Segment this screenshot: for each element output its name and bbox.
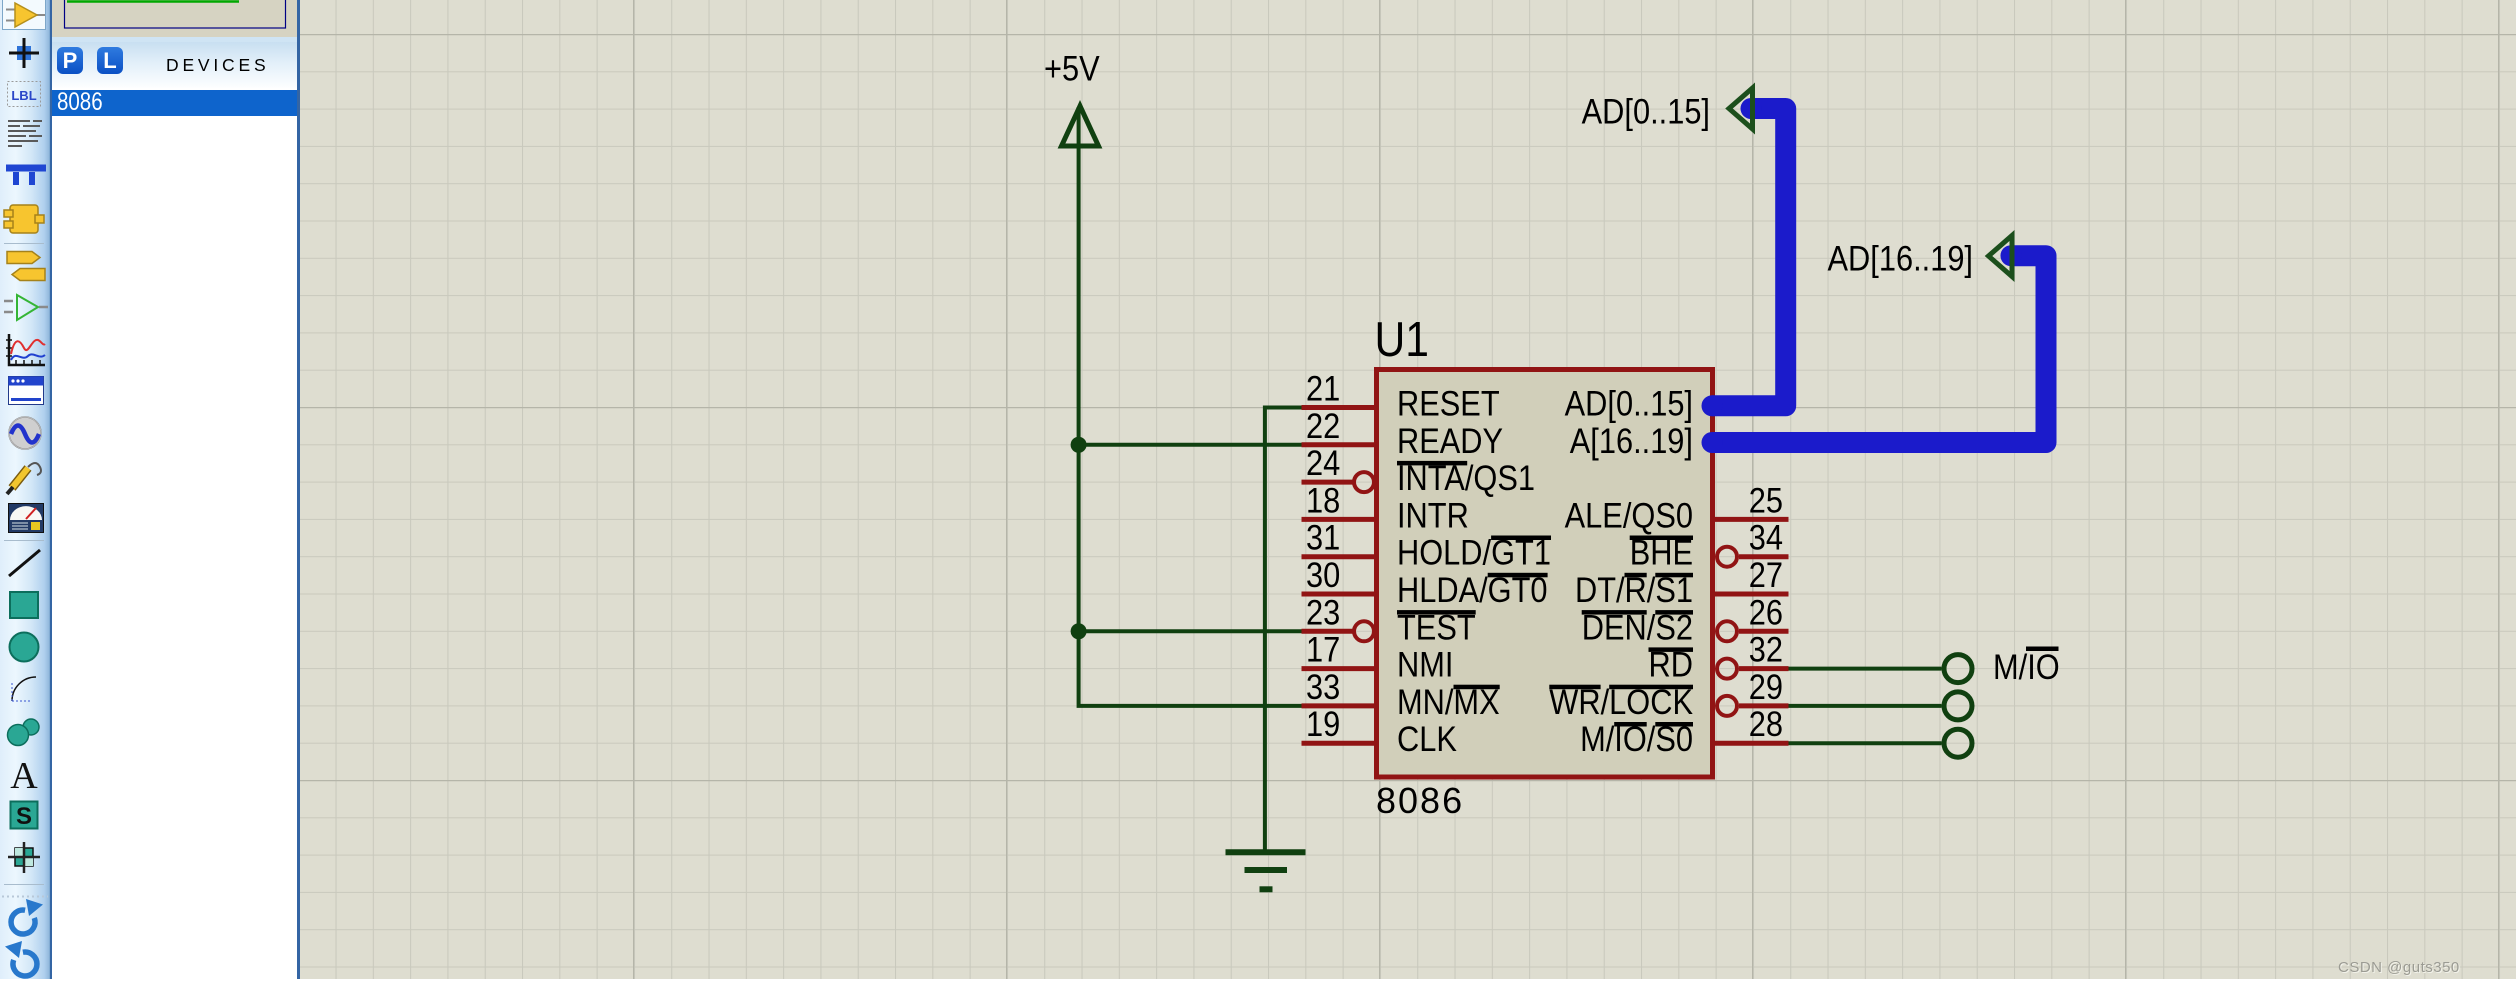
bus AD[16..19]: [1702, 245, 2047, 453]
wire branch to READY: [1079, 443, 1302, 447]
bus terminal arrow AD[16..19]: [1989, 236, 2013, 277]
pin 28 M/IO/S0: [1580, 704, 1788, 758]
wire branch to TEST: [1079, 629, 1302, 633]
svg-text:8086: 8086: [1376, 780, 1464, 821]
svg-text:A[16..19]: A[16..19]: [1570, 421, 1693, 460]
svg-text:LBL: LBL: [11, 88, 36, 103]
pin 25 ALE/QS0: [1565, 481, 1789, 535]
svg-text:19: 19: [1306, 704, 1340, 743]
toolbar right edge: [50, 0, 52, 979]
wire RESET to ground: [1265, 408, 1302, 850]
svg-text:AD[0..15]: AD[0..15]: [1582, 92, 1710, 131]
terminal M/IO: [1944, 647, 2060, 687]
toolbar button: 2D symbol: [11, 802, 38, 831]
pin 30 HLDA/GT0: [1302, 555, 1548, 609]
toolbar button: 2D circle: [10, 633, 39, 662]
svg-text:18: 18: [1306, 481, 1340, 520]
pin 23 TEST (bubble): [1302, 592, 1476, 646]
toolbar button: rotate clockwise: [11, 899, 43, 934]
svg-text:RESET: RESET: [1397, 384, 1500, 423]
toolbar button: component mode (selected): [3, 0, 46, 30]
wire M/IO/S0 to terminal: [1789, 741, 1942, 745]
toolbar button: generator mode: [9, 417, 41, 449]
pin 27 DT/R/S1: [1575, 555, 1789, 609]
pin 21 RESET: [1302, 369, 1500, 423]
svg-text:27: 27: [1749, 555, 1783, 594]
toolbar button: junction dot mode: [9, 38, 39, 68]
toolbar button: graph mode: [6, 334, 45, 365]
toolbar button: device pins mode: [4, 295, 48, 320]
pin 31 HOLD/GT1: [1302, 518, 1552, 572]
svg-text:AD[16..19]: AD[16..19]: [1828, 239, 1973, 278]
wire RD to terminal: [1789, 667, 1942, 671]
pin 29 WR/LOCK (bubble): [1549, 667, 1788, 721]
toolbar button: wire label mode: [8, 82, 41, 107]
pin 33 MN/MX: [1302, 667, 1500, 721]
toolbar button: 2D arc: [10, 677, 36, 702]
svg-text:24: 24: [1306, 443, 1340, 482]
pin 24 INTA/QS1 (active low, bubble): [1302, 443, 1536, 497]
object selector panel: [52, 0, 300, 979]
pin 17 NMI: [1302, 630, 1454, 684]
svg-text:17: 17: [1306, 630, 1340, 669]
IC U1 8086 body: [1377, 370, 1713, 778]
svg-text:32: 32: [1749, 630, 1783, 669]
svg-text:34: 34: [1749, 518, 1783, 557]
toolbar button: 2D box: [10, 592, 38, 618]
svg-text:A: A: [10, 755, 38, 797]
svg-text:33: 33: [1306, 667, 1340, 706]
separator: [4, 884, 44, 886]
toolbar button: virtual instruments mode: [9, 504, 44, 533]
toolbar button: tape recorder mode: [9, 377, 44, 405]
svg-text:M/IO: M/IO: [1993, 647, 2060, 686]
svg-text:CLK: CLK: [1397, 719, 1457, 758]
pin 19 CLK: [1302, 704, 1457, 758]
toolbar button: subcircuit mode: [4, 205, 44, 233]
pin 22 READY: [1302, 406, 1504, 460]
pin 32 RD (bubble): [1649, 630, 1789, 684]
svg-text:ALE/QS0: ALE/QS0: [1565, 496, 1693, 535]
wire +5V down to MN/MX pin: [1079, 107, 1302, 706]
svg-text:21: 21: [1306, 369, 1340, 408]
svg-text:AD[0..15]: AD[0..15]: [1565, 384, 1693, 423]
svg-text:31: 31: [1306, 518, 1340, 557]
svg-text:U1: U1: [1375, 311, 1429, 366]
svg-text:INTR: INTR: [1397, 496, 1469, 535]
toolbar button: buses mode: [6, 168, 46, 185]
pin 18 INTR: [1302, 481, 1469, 535]
junction dot at READY branch: [1071, 437, 1087, 453]
svg-text:29: 29: [1749, 667, 1783, 706]
terminal on WR/LOCK wire: [1944, 692, 1972, 720]
junction dot at TEST branch: [1071, 623, 1087, 639]
toolbar button: terminals mode: [7, 252, 45, 281]
svg-text:READY: READY: [1397, 421, 1503, 460]
svg-text:+5V: +5V: [1044, 49, 1100, 88]
svg-text:30: 30: [1306, 555, 1340, 594]
separator: [4, 243, 44, 245]
svg-text:26: 26: [1749, 592, 1783, 631]
toolbar button: 2D closed path: [8, 719, 40, 746]
svg-text:25: 25: [1749, 481, 1783, 520]
ground: [1226, 852, 1306, 889]
watermark: [2338, 959, 2460, 976]
svg-text:22: 22: [1306, 406, 1340, 445]
toolbar button: rotate anticlockwise: [5, 941, 37, 976]
terminal on M/IO/S0 wire: [1944, 729, 1972, 757]
pin 26 DEN/S2 (bubble): [1582, 592, 1789, 646]
toolbar button: voltage probe mode: [7, 463, 41, 494]
bus terminal arrow AD[0..15]: [1729, 88, 1753, 129]
svg-text:NMI: NMI: [1397, 645, 1453, 684]
separator: [4, 540, 44, 542]
toolbar button: text script mode: [8, 121, 42, 146]
svg-text:23: 23: [1306, 592, 1340, 631]
power rail +5V: [1044, 49, 1100, 146]
svg-text:S: S: [16, 803, 32, 830]
svg-text:28: 28: [1749, 704, 1783, 743]
left toolbar: [0, 0, 52, 979]
toolbar button: marker mode: [8, 842, 40, 873]
toolbar button: 2D line: [9, 550, 40, 576]
bus AD[0..15]: [1702, 98, 1786, 416]
wire WR/LOCK to terminal: [1789, 704, 1942, 708]
pin 34 BHE (bubble): [1630, 518, 1789, 572]
